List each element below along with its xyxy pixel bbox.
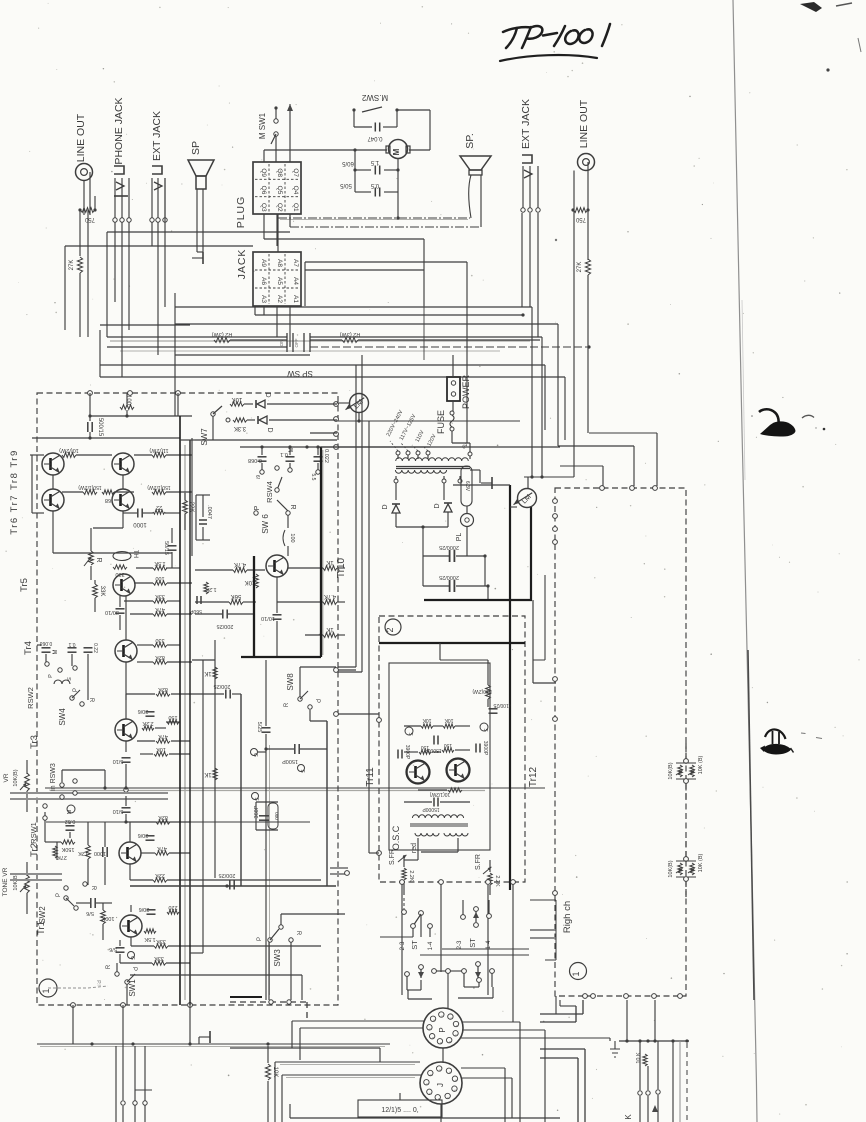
svg-text:SW8: SW8 <box>286 673 295 691</box>
svg-text:150(1/2W): 150(1/2W) <box>147 484 171 490</box>
svg-text:Tr5: Tr5 <box>19 578 30 592</box>
svg-text:Q3: Q3 <box>260 203 267 212</box>
svg-text:SW 6: SW 6 <box>261 514 270 534</box>
svg-text:1.5: 1.5 <box>370 159 379 165</box>
svg-text:Tr2: Tr2 <box>29 843 40 857</box>
svg-text:R: R <box>88 698 94 703</box>
svg-text:9: 9 <box>428 1028 433 1031</box>
svg-text:Tr4: Tr4 <box>23 641 34 655</box>
svg-text:12K: 12K <box>78 850 88 856</box>
svg-text:9: 9 <box>453 1089 458 1092</box>
svg-text:10 K: 10 K <box>636 1052 642 1064</box>
svg-text:10(/2W): 10(/2W) <box>59 447 79 453</box>
svg-text:ON: ON <box>279 340 284 347</box>
svg-text:27K: 27K <box>57 854 67 860</box>
svg-text:150: 150 <box>421 744 430 750</box>
svg-text:K: K <box>624 1114 633 1120</box>
svg-text:10K: 10K <box>444 717 454 723</box>
svg-text:red: red <box>411 843 418 853</box>
svg-text:2.2K: 2.2K <box>494 875 500 887</box>
svg-text:S: S <box>253 797 259 801</box>
svg-text:1000: 1000 <box>133 521 147 527</box>
svg-text:M: M <box>392 148 401 155</box>
svg-text:M SW1: M SW1 <box>258 112 267 139</box>
svg-text:750: 750 <box>84 216 95 222</box>
svg-text:PHONE JACK: PHONE JACK <box>113 97 125 164</box>
svg-text:P: P <box>48 674 54 678</box>
svg-text:Q7: Q7 <box>292 168 299 177</box>
svg-text:680(2W): 680(2W) <box>472 688 492 694</box>
svg-text:3900P: 3900P <box>482 741 488 756</box>
svg-text:R: R <box>90 886 96 891</box>
svg-text:9: 9 <box>425 1083 430 1086</box>
svg-text:2000/25: 2000/25 <box>439 544 459 550</box>
svg-text:Tr6 Tr7 Tr8 Tr9: Tr6 Tr7 Tr8 Tr9 <box>9 449 20 535</box>
svg-text:10(1/2W): 10(1/2W) <box>429 791 450 797</box>
svg-text:110V: 110V <box>415 429 426 443</box>
svg-text:Q8: Q8 <box>276 168 283 177</box>
svg-text:33K: 33K <box>99 586 105 597</box>
svg-text:A1: A1 <box>292 295 299 303</box>
svg-text:R: R <box>289 504 296 509</box>
svg-text:33K: 33K <box>156 938 166 944</box>
svg-text:9: 9 <box>449 1017 454 1020</box>
svg-text:OFF: OFF <box>294 338 299 347</box>
svg-text:A5: A5 <box>276 277 283 285</box>
svg-text:5/25: 5/25 <box>256 722 262 733</box>
svg-text:1500P: 1500P <box>282 758 298 764</box>
svg-text:A4: A4 <box>292 277 299 285</box>
svg-text:P: P <box>254 505 261 510</box>
svg-text:Q6: Q6 <box>260 186 267 195</box>
svg-text:D: D <box>266 427 273 432</box>
svg-text:JACK: JACK <box>236 249 248 280</box>
svg-text:47K: 47K <box>155 606 165 612</box>
svg-text:P: P <box>131 967 137 971</box>
svg-text:500/15: 500/15 <box>97 418 103 437</box>
svg-text:82K: 82K <box>155 654 165 660</box>
svg-text:SW2: SW2 <box>38 906 47 924</box>
svg-text:R: R <box>95 557 102 562</box>
svg-text:100: 100 <box>125 395 131 406</box>
svg-text:1000: 1000 <box>94 850 106 856</box>
svg-text:22K: 22K <box>188 502 194 513</box>
svg-text:1-4: 1-4 <box>428 941 434 950</box>
svg-text:M: M <box>53 650 59 655</box>
svg-text:5/6: 5/6 <box>109 946 117 952</box>
svg-text:5/10: 5/10 <box>113 758 124 764</box>
svg-text:2: 2 <box>385 627 395 632</box>
svg-text:O.S.C: O.S.C <box>391 825 401 850</box>
svg-text:15000P: 15000P <box>422 806 440 812</box>
svg-text:3.3K: 3.3K <box>234 425 246 431</box>
svg-text:30/6: 30/6 <box>139 906 150 912</box>
svg-text:150: 150 <box>444 742 453 748</box>
svg-text:10K (B): 10K (B) <box>698 854 704 873</box>
svg-text:10K(B): 10K(B) <box>13 769 19 786</box>
svg-text:Q9: Q9 <box>260 168 267 177</box>
svg-text:D: D <box>264 392 271 397</box>
svg-text:SW4: SW4 <box>58 708 67 726</box>
svg-text:5.5: 5.5 <box>310 474 316 481</box>
svg-text:RSW4: RSW4 <box>265 481 274 503</box>
svg-text:6.3V: 6.3V <box>464 481 470 492</box>
svg-text:Q5: Q5 <box>276 186 283 195</box>
svg-text:30/10: 30/10 <box>105 609 119 615</box>
svg-text:330: 330 <box>155 637 164 643</box>
svg-text:.0047: .0047 <box>206 505 212 519</box>
svg-text:100: 100 <box>155 575 164 581</box>
svg-text:D: D <box>434 503 441 508</box>
svg-text:M: M <box>67 809 73 814</box>
svg-text:0.068: 0.068 <box>248 457 262 463</box>
svg-text:9: 9 <box>455 1025 460 1028</box>
svg-text:S.FR: S.FR <box>389 849 396 865</box>
svg-text:10K(B): 10K(B) <box>13 873 19 890</box>
svg-text:560P: 560P <box>190 608 202 614</box>
svg-text:0.068: 0.068 <box>40 640 53 646</box>
svg-text:30/6: 30/6 <box>138 708 149 714</box>
svg-text:120V: 120V <box>426 433 437 447</box>
svg-text:9: 9 <box>448 1071 453 1074</box>
svg-text:A6: A6 <box>260 277 267 285</box>
svg-text:11(/2W): 11(/2W) <box>149 447 168 453</box>
svg-text:1: 1 <box>41 988 51 993</box>
svg-text:SP: SP <box>190 141 202 155</box>
svg-text:S: S <box>482 728 488 732</box>
svg-text:10K (B): 10K (B) <box>698 756 704 775</box>
svg-text:LINE OUT: LINE OUT <box>578 99 590 148</box>
svg-text:TH: TH <box>132 550 138 558</box>
svg-text:200/25: 200/25 <box>219 872 236 878</box>
svg-text:P: P <box>257 937 263 941</box>
svg-text:P: P <box>314 699 320 703</box>
svg-text:0.5: 0.5 <box>370 182 379 188</box>
svg-text:S: S <box>407 732 413 736</box>
svg-text:P: P <box>56 893 62 897</box>
svg-text:10K: 10K <box>422 717 432 723</box>
svg-text:60/5: 60/5 <box>342 160 354 166</box>
svg-text:1: 1 <box>571 971 581 976</box>
svg-text:150K: 150K <box>61 846 74 852</box>
svg-text:1.5K: 1.5K <box>154 560 166 566</box>
svg-text:M.SW2: M.SW2 <box>361 93 388 102</box>
svg-text:PLUG: PLUG <box>235 196 247 229</box>
svg-text:50/15: 50/15 <box>163 541 169 555</box>
svg-text:100K: 100K <box>101 915 114 921</box>
svg-text:68: 68 <box>105 497 111 503</box>
svg-text:4.7K: 4.7K <box>234 561 246 567</box>
svg-text:(100/25: (100/25 <box>493 702 510 708</box>
svg-text:A8: A8 <box>276 259 283 267</box>
svg-text:9: 9 <box>431 1037 436 1040</box>
svg-text:2.2K: 2.2K <box>142 720 154 726</box>
svg-text:1K: 1K <box>326 626 333 632</box>
svg-text:ST: ST <box>468 938 477 948</box>
svg-text:ST: ST <box>410 940 419 950</box>
svg-text:150: 150 <box>168 714 177 720</box>
svg-text:2-3: 2-3 <box>457 940 463 949</box>
svg-text:750: 750 <box>575 216 586 222</box>
svg-text:1K: 1K <box>204 670 211 676</box>
svg-text:2-3: 2-3 <box>400 941 406 950</box>
svg-text:33K: 33K <box>155 593 165 599</box>
svg-text:P: P <box>73 688 79 692</box>
svg-text:220: 220 <box>168 904 177 910</box>
svg-text:D: D <box>382 504 389 509</box>
svg-text:100: 100 <box>289 533 295 542</box>
svg-text:POWER: POWER <box>461 375 471 410</box>
svg-text:Q1: Q1 <box>292 203 299 212</box>
svg-text:A9: A9 <box>260 259 267 267</box>
svg-text:R: R <box>284 702 290 707</box>
svg-text:10K(B): 10K(B) <box>668 860 674 877</box>
svg-text:9: 9 <box>454 1079 459 1082</box>
svg-text:Q2: Q2 <box>276 203 283 212</box>
svg-text:56K: 56K <box>231 593 242 599</box>
svg-text:SP SW: SP SW <box>287 369 313 378</box>
svg-text:SW3: SW3 <box>273 949 282 967</box>
svg-text:9: 9 <box>438 1069 443 1072</box>
svg-text:6!: 6! <box>254 475 260 479</box>
svg-text:10K: 10K <box>156 746 166 752</box>
svg-text:1.5K: 1.5K <box>144 936 156 942</box>
svg-text:200/25: 200/25 <box>217 623 234 629</box>
svg-text:22K: 22K <box>155 872 165 878</box>
svg-text:1-4: 1-4 <box>486 940 492 949</box>
svg-text:9: 9 <box>455 1034 460 1037</box>
svg-text:12/1)5 .... 0,: 12/1)5 .... 0, <box>381 1107 418 1114</box>
svg-text:47K: 47K <box>158 733 168 739</box>
svg-text:Tr12: Tr12 <box>528 766 539 787</box>
svg-text:30/6: 30/6 <box>138 832 149 838</box>
svg-text:9: 9 <box>428 1092 433 1095</box>
svg-text:S: S <box>299 769 305 773</box>
svg-text:10/10: 10/10 <box>261 615 275 621</box>
svg-text:S.FR: S.FR <box>475 854 482 870</box>
svg-text:0.1: 0.1 <box>280 451 288 457</box>
svg-text:VR: VR <box>3 773 10 782</box>
svg-text:0.047: 0.047 <box>367 135 383 141</box>
svg-text:1.2K: 1.2K <box>205 586 217 592</box>
svg-text:Q4: Q4 <box>292 186 299 195</box>
svg-text:9: 9 <box>439 1042 444 1045</box>
svg-text:RSW1: RSW1 <box>29 822 38 844</box>
svg-text:9: 9 <box>448 1041 453 1044</box>
svg-text:G: G <box>252 753 258 757</box>
svg-text:1K: 1K <box>204 771 211 777</box>
svg-text:50/5: 50/5 <box>340 182 352 188</box>
svg-text:10K(B): 10K(B) <box>668 762 674 779</box>
svg-text:9: 9 <box>440 1015 445 1018</box>
svg-text:LINE OUT: LINE OUT <box>75 113 87 162</box>
svg-text:P.!: P.! <box>95 980 101 985</box>
svg-text:R: R <box>295 931 301 936</box>
svg-text:RSW2: RSW2 <box>26 687 35 709</box>
svg-text:EXT JACK: EXT JACK <box>520 99 532 149</box>
svg-text:9: 9 <box>447 1097 452 1100</box>
svg-text:82K: 82K <box>158 814 168 820</box>
svg-text:33K: 33K <box>154 955 164 961</box>
svg-text:1K: 1K <box>326 559 333 565</box>
svg-text:A3: A3 <box>260 295 267 303</box>
svg-text:10K: 10K <box>232 396 243 402</box>
svg-text:0.022: 0.022 <box>323 449 329 463</box>
svg-text:2000/25: 2000/25 <box>439 574 459 580</box>
svg-text:PL: PL <box>456 533 463 542</box>
svg-text:SP.: SP. <box>464 133 476 149</box>
svg-text:9: 9 <box>429 1074 434 1077</box>
svg-text:A7: A7 <box>292 259 299 267</box>
svg-text:5/6: 5/6 <box>86 910 94 916</box>
svg-text:200/25: 200/25 <box>214 683 231 689</box>
svg-text:5/10: 5/10 <box>113 808 124 814</box>
svg-text:27K: 27K <box>577 262 583 273</box>
svg-text:R: R <box>106 964 112 969</box>
svg-text:82K: 82K <box>158 686 168 692</box>
svg-text:R2 (3W): R2 (3W) <box>212 331 233 337</box>
svg-text:Tr3: Tr3 <box>29 735 40 749</box>
svg-text:0.1: 0.1 <box>68 641 75 647</box>
svg-text:150(1/2W): 150(1/2W) <box>78 484 102 490</box>
svg-text:SW7: SW7 <box>200 428 209 446</box>
svg-text:27K: 27K <box>69 260 75 271</box>
svg-text:R2 (3W): R2 (3W) <box>340 331 361 337</box>
svg-text:47K: 47K <box>157 845 167 851</box>
svg-text:Righ ch: Righ ch <box>562 901 573 933</box>
svg-text:2.2K: 2.2K <box>408 870 414 882</box>
svg-text:in RSW3: in RSW3 <box>50 763 57 791</box>
svg-text:22: 22 <box>156 504 162 510</box>
svg-text:FUSE: FUSE <box>436 410 446 434</box>
svg-text:J: J <box>436 1083 445 1087</box>
svg-text:000: 000 <box>274 812 279 820</box>
svg-text:4.7K: 4.7K <box>324 593 336 599</box>
svg-text:G: G <box>129 956 135 960</box>
svg-text:P: P <box>438 1027 447 1032</box>
svg-text:9: 9 <box>432 1019 437 1022</box>
svg-text:TONE VR: TONE VR <box>2 867 9 896</box>
svg-text:Tr11: Tr11 <box>365 767 376 787</box>
svg-text:A2: A2 <box>276 295 283 303</box>
svg-text:10K: 10K <box>272 1067 278 1078</box>
svg-text:0.22: 0.22 <box>92 643 98 653</box>
svg-text:EXT JACK: EXT JACK <box>151 111 163 161</box>
